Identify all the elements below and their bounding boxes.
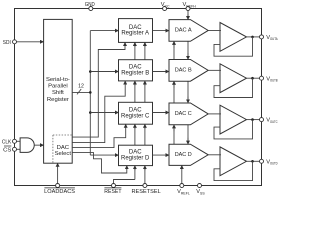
wire VREFH rail (187, 9, 189, 145)
svg-text:Register A: Register A (121, 31, 149, 37)
wire bus to register B (90, 71, 118, 73)
wire bus to register D (90, 154, 118, 156)
op-amp D (220, 147, 247, 176)
wire DAC D to op-amp D (208, 154, 221, 156)
wire RESETSEL arrow register B (144, 81, 146, 86)
wire RESETSEL arrow register D (144, 166, 146, 171)
op-amp B (220, 64, 247, 93)
svg-text:12: 12 (78, 84, 84, 90)
wire bus to register A (90, 30, 118, 32)
chip outline (15, 9, 262, 186)
wire data bus rail (89, 31, 91, 156)
svg-text:RESET: RESET (104, 189, 122, 195)
wire select B (72, 81, 125, 143)
wire DAC C to op-amp C (208, 113, 221, 115)
wire CLK input (15, 140, 21, 142)
pin VSS (196, 184, 205, 196)
svg-text:LOADDACS: LOADDACS (44, 189, 75, 195)
wire VREFH arrow into DAC A (187, 14, 189, 20)
DAC A (169, 20, 208, 42)
wire op-amp B output to VOUTB (247, 77, 262, 79)
wire VREFL rail (173, 41, 175, 165)
pin VOUTC (260, 118, 279, 124)
op-amp A (220, 23, 247, 52)
wire op-amp D output to VOUTD (247, 160, 262, 162)
wire LOADDACS to DAC select (57, 163, 59, 185)
wire bus to register C (90, 112, 118, 114)
svg-text:Shift: Shift (52, 90, 64, 96)
pin SDI (3, 40, 17, 46)
wire VREFH arrow into DAC B (187, 53, 189, 60)
wire RESET arrow register D (134, 166, 136, 171)
DAC C (169, 103, 208, 125)
wire gate output to shift register (34, 144, 43, 146)
wire SDI input (15, 41, 44, 43)
wire VREFL terminal to DAC D (181, 165, 183, 185)
svg-text:DAC D: DAC D (175, 152, 192, 158)
pin GND (85, 2, 95, 10)
pin VCC (161, 2, 170, 10)
wire VREFL arrow into DAC C (173, 125, 175, 132)
wire RESET arrow register B (134, 81, 136, 86)
node bus branch C (89, 111, 92, 114)
pin VOUTB (260, 76, 279, 82)
pin RESET (104, 184, 122, 196)
wire RESETSEL rail (x=144.9 up through register column) (144, 42, 146, 185)
DAC register D (119, 145, 153, 165)
wire DAC A to op-amp A (208, 29, 221, 31)
wire register A to DAC A (153, 30, 170, 32)
wire op-amp D feedback (214, 161, 253, 180)
DAC register C (119, 102, 153, 124)
DAC register A (119, 19, 153, 43)
pin VOUTA (260, 35, 279, 41)
pin VREFL (177, 184, 190, 196)
svg-text:Register D: Register D (121, 155, 150, 161)
node bus junction (89, 91, 92, 94)
wire RESET arrow register C (134, 124, 136, 129)
wire op-amp A feedback (214, 37, 253, 56)
svg-text:Register: Register (47, 97, 69, 103)
shift register box (44, 19, 73, 163)
wire register D to DAC D (153, 154, 170, 156)
op-amp C (220, 105, 247, 134)
svg-text:Register B: Register B (121, 70, 149, 76)
wire RESETSEL arrow register A (144, 42, 146, 47)
wire VREFL arrow into DAC A (173, 41, 175, 48)
wire select D (72, 153, 127, 173)
node op-amp C output junction (251, 118, 254, 121)
label 12 (78, 84, 84, 90)
wire register C to DAC C (153, 112, 170, 114)
svg-text:DAC C: DAC C (175, 111, 193, 117)
wire DAC B to op-amp B (208, 69, 221, 71)
node bus branch B (89, 70, 92, 73)
node op-amp B output junction (251, 77, 254, 80)
node op-amp D output junction (251, 160, 254, 163)
node op-amp A output junction (251, 36, 254, 39)
svg-text:Register C: Register C (121, 113, 150, 119)
wire select C (72, 124, 126, 147)
svg-text:CLK: CLK (2, 139, 12, 145)
wire op-amp C feedback (214, 120, 253, 139)
wire VREFL arrow into DAC B (173, 81, 175, 88)
svg-text:RESETSEL: RESETSEL (132, 189, 161, 195)
pin VREFH (183, 2, 197, 10)
gate U1 clock AND (20, 138, 34, 153)
wire op-amp A output to VOUTA (247, 36, 262, 38)
svg-text:GND: GND (85, 2, 95, 8)
svg-text:DAC A: DAC A (175, 28, 192, 34)
wire register B to DAC B (153, 71, 170, 73)
DAC D (169, 144, 208, 165)
DAC B (169, 60, 208, 82)
wire CS input (15, 148, 21, 150)
wire RESET rail (x=134.9 up through register column) (134, 42, 136, 179)
svg-text:Select: Select (55, 151, 72, 157)
wire RESET arrow register A (134, 42, 136, 47)
pin LOADDACS (44, 184, 75, 196)
pin VOUTD (260, 159, 279, 165)
svg-text:Serial-to-: Serial-to- (46, 77, 70, 83)
svg-text:SDI: SDI (3, 40, 11, 46)
wire select A (72, 42, 125, 137)
wire VREFH arrow into DAC C (187, 97, 189, 104)
wire VREFH arrow into DAC D (187, 138, 189, 145)
wire 12-bit bus from shift register (72, 91, 90, 93)
DAC Select block (dashed partition) (53, 135, 72, 163)
pin CS (3, 146, 16, 153)
wire op-amp C output to VOUTC (247, 119, 262, 121)
pin RESETSEL (132, 184, 161, 196)
pin CLK (2, 139, 17, 145)
wire RESETSEL arrow register C (144, 124, 146, 129)
svg-text:DAC B: DAC B (175, 68, 192, 74)
wire op-amp B feedback (214, 78, 253, 97)
bus slash (77, 89, 81, 94)
wire RESET to rail (114, 180, 135, 186)
DAC register B (119, 60, 153, 81)
svg-text:Parallel: Parallel (48, 84, 68, 90)
svg-text:CS: CS (3, 147, 11, 153)
